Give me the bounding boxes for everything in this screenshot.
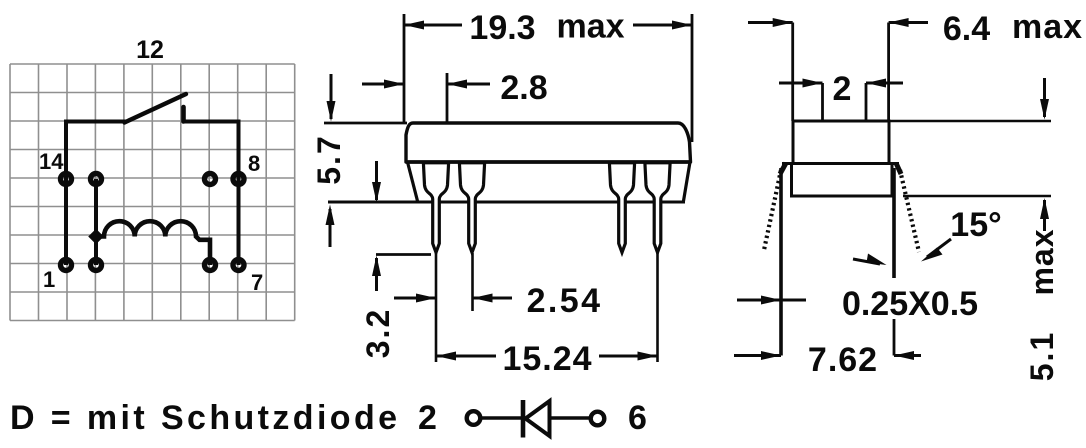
side view package skirt bottom line [328, 201, 685, 204]
end view left leg 15deg [764, 163, 786, 250]
pin 7 side view [645, 163, 670, 253]
dim 2.54 [394, 253, 602, 362]
end view right pin vertical [892, 168, 896, 356]
diode pin label 2 [418, 399, 437, 437]
side view skirt right slant [684, 162, 691, 201]
wire switch top right horizontal [184, 120, 241, 124]
svg-text:19.3: 19.3 [469, 9, 535, 47]
pin label 14 [39, 149, 64, 174]
switch blade S1 [125, 94, 187, 123]
wire switch right vertical (pin 8 to pin 7) [237, 122, 241, 266]
diode terminal circle right [591, 412, 605, 426]
svg-text:5.7: 5.7 [311, 134, 347, 184]
pin 14 terminal [61, 174, 72, 185]
label 0.25X0.5 [737, 254, 978, 324]
side view body bottom line [406, 160, 691, 163]
diode terminal circle left [467, 411, 481, 425]
dim 19.3 max [404, 8, 692, 143]
pin 6 terminal (inner top right) [205, 174, 216, 185]
pin 6 side view [609, 163, 634, 253]
pin terminal bottom inner right [205, 260, 216, 271]
dim 2.8 [362, 69, 548, 123]
svg-text:1: 1 [43, 267, 55, 292]
svg-text:14: 14 [39, 149, 64, 174]
end view base [792, 164, 893, 197]
pin 1 side view [423, 163, 448, 253]
diode pin label 6 [628, 399, 647, 437]
svg-text:7.62: 7.62 [808, 341, 878, 379]
svg-text:2: 2 [418, 399, 437, 437]
dim 7.62 [734, 341, 921, 379]
wire coil left vertical (inner pin to junction) [94, 179, 98, 265]
dim 3.2 [360, 161, 431, 358]
wire diode left [481, 416, 523, 419]
pin label 12 [136, 36, 164, 64]
svg-text:2.8: 2.8 [500, 69, 547, 107]
svg-text:12: 12 [136, 36, 164, 64]
wire switch left vertical (pin 14 to pin 1) [64, 122, 68, 266]
pin label 7 [251, 270, 263, 295]
dim 5.1 max [889, 78, 1060, 381]
side view skirt left slant [408, 162, 418, 201]
pin 7 terminal [233, 260, 244, 271]
pin terminal bottom inner left [91, 260, 102, 271]
wire diode right [550, 416, 591, 419]
junction node [88, 229, 104, 245]
svg-text:0.25X0.5: 0.25X0.5 [842, 285, 978, 323]
switch contact stub [181, 107, 186, 122]
svg-text:2: 2 [833, 70, 852, 108]
pin 2 side view [459, 163, 484, 253]
svg-text:8: 8 [248, 151, 260, 176]
svg-text:max: max [1012, 8, 1083, 46]
dim 5.7 [311, 74, 407, 247]
side view package body [406, 123, 691, 162]
svg-text:6.4: 6.4 [943, 10, 990, 48]
svg-text:5.1: 5.1 [1024, 331, 1060, 381]
svg-text:7: 7 [251, 270, 263, 295]
svg-text:3.2: 3.2 [360, 308, 396, 358]
end view left pin vertical [779, 168, 783, 356]
pin 1 terminal [61, 260, 72, 271]
label 15 deg [921, 206, 1002, 262]
svg-text:D = mit Schutzdiode: D = mit Schutzdiode [10, 399, 400, 437]
dim 15.24 [436, 253, 658, 378]
caption D = mit Schutzdiode [10, 399, 400, 437]
grid [10, 64, 295, 321]
pin label 1 [43, 267, 55, 292]
pin 2 terminal (inner top left) [91, 174, 102, 185]
pin label 8 [248, 151, 260, 176]
svg-text:15.24: 15.24 [502, 340, 592, 378]
wire switch top left horizontal [64, 120, 126, 124]
svg-text:2.54: 2.54 [527, 282, 603, 320]
svg-text:max: max [556, 8, 624, 46]
end view right leg 15deg [896, 163, 919, 252]
svg-text:max: max [1024, 228, 1060, 295]
coil L1 [96, 221, 210, 265]
svg-text:15°: 15° [950, 206, 1001, 244]
diode D1 cathode bar [521, 400, 526, 438]
diode D1 triangle [526, 401, 550, 436]
end view ledge line [782, 162, 899, 165]
end view lid [793, 121, 889, 164]
dim 6.4 max [748, 8, 1083, 121]
dim 2 [779, 70, 903, 121]
svg-text:6: 6 [628, 399, 647, 437]
pin 8 terminal [233, 174, 244, 185]
